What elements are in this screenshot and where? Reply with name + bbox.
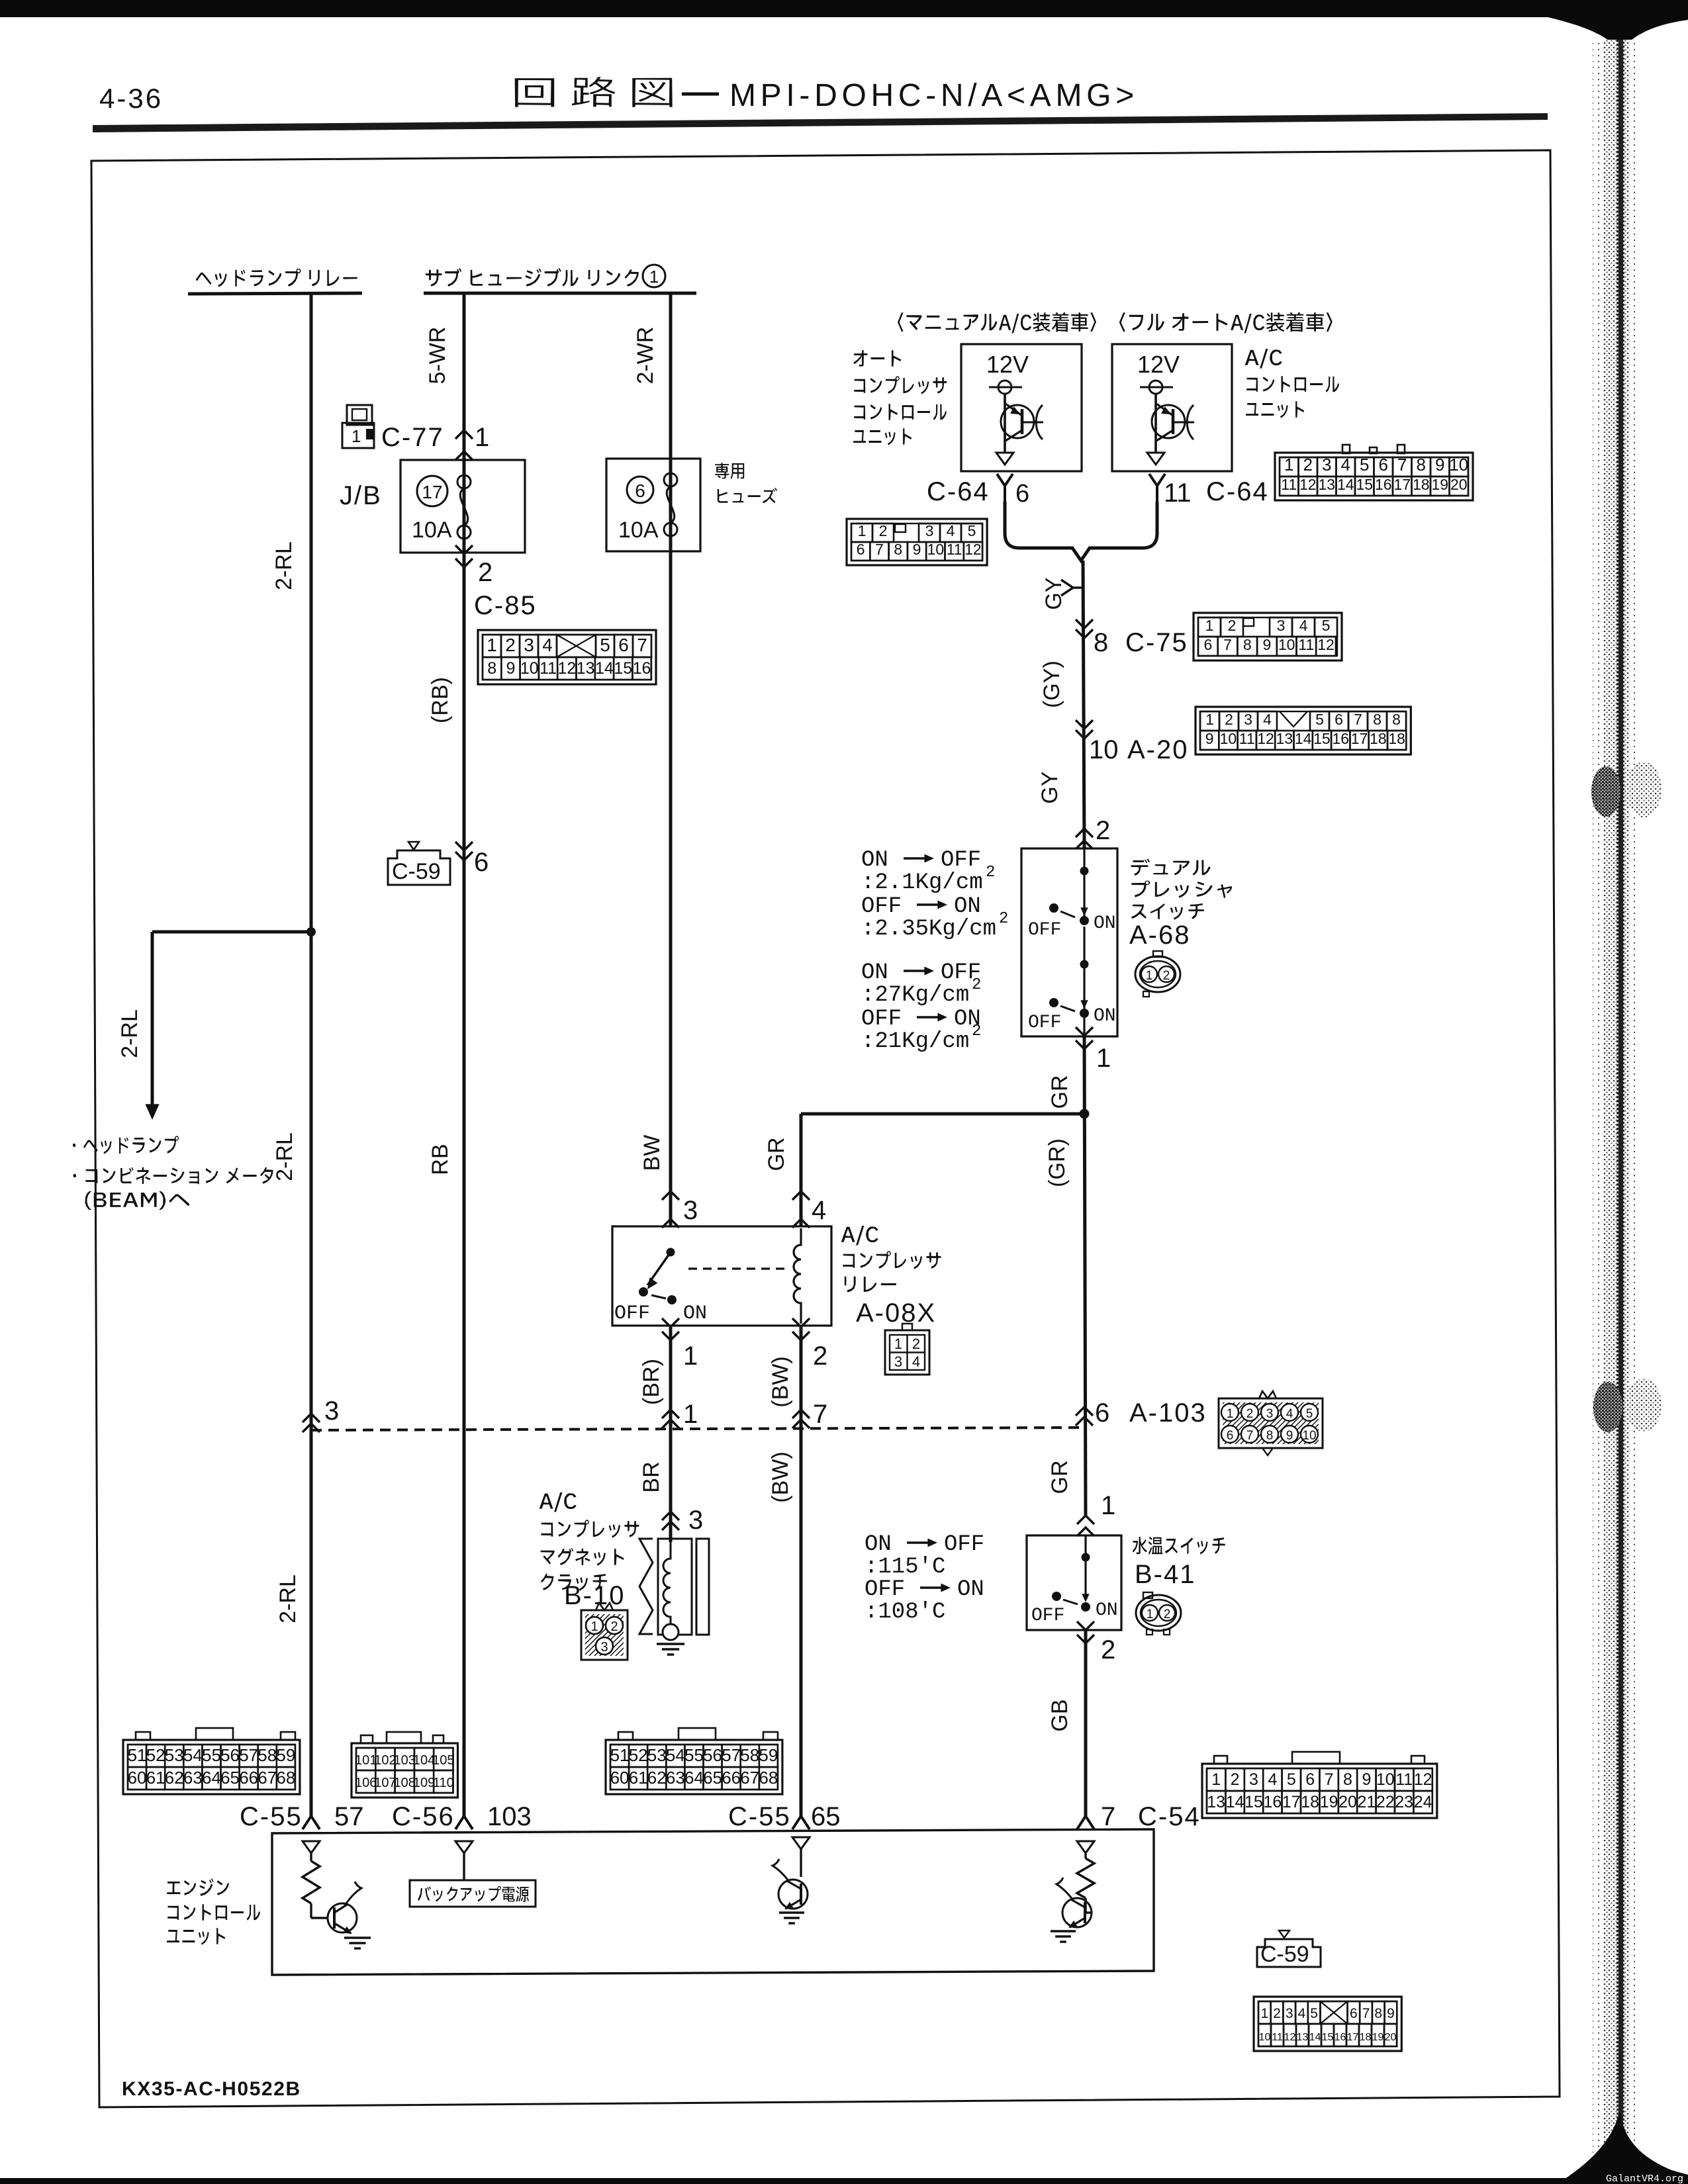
svg-text:3: 3 bbox=[925, 522, 934, 539]
svg-text:6: 6 bbox=[1379, 455, 1388, 475]
svg-text:68: 68 bbox=[276, 1768, 295, 1788]
svg-text:17: 17 bbox=[422, 482, 442, 502]
svg-text:GR: GR bbox=[764, 1138, 789, 1171]
svg-text:6: 6 bbox=[1095, 1398, 1109, 1428]
svg-text:4: 4 bbox=[1298, 2006, 1306, 2021]
wire GR below A-68 bbox=[1084, 1036, 1086, 1516]
connector icon A-103 bbox=[1219, 1398, 1323, 1448]
relay A-08X box bbox=[612, 1226, 831, 1326]
svg-text:12: 12 bbox=[557, 659, 576, 678]
svg-text:17: 17 bbox=[1393, 476, 1411, 493]
svg-text:10: 10 bbox=[1259, 2032, 1271, 2043]
relay switch ON contact bbox=[667, 1295, 677, 1304]
svg-text:1: 1 bbox=[683, 1342, 698, 1371]
svg-text:2: 2 bbox=[813, 1342, 827, 1371]
A-68 node dot mid bbox=[1080, 960, 1089, 969]
label 専用ヒューズ bbox=[715, 463, 744, 478]
junction dot 2-RL branch bbox=[306, 927, 316, 936]
fork at C-64 pin 11 bbox=[1149, 474, 1165, 504]
B-41 exit bbox=[1077, 1621, 1094, 1630]
svg-text:ON: ON bbox=[954, 894, 981, 919]
svg-text:OFF: OFF bbox=[865, 1577, 905, 1602]
fuse symbol dedicated fuse bbox=[664, 473, 677, 486]
page title 回路図 kanji bbox=[515, 77, 673, 107]
ECU internal: transistor at pin 65 bbox=[792, 1837, 810, 1849]
svg-text:110: 110 bbox=[433, 1776, 454, 1790]
svg-text:9: 9 bbox=[1286, 1429, 1293, 1443]
svg-text:12: 12 bbox=[1299, 476, 1317, 493]
relay chevron below top edge pin3 bbox=[662, 1219, 679, 1228]
svg-text:19: 19 bbox=[1431, 476, 1448, 493]
svg-text:3: 3 bbox=[1277, 617, 1286, 634]
svg-text:3: 3 bbox=[683, 1196, 698, 1225]
svg-text:(GY): (GY) bbox=[1039, 660, 1064, 708]
thick title rule bbox=[93, 113, 1548, 132]
svg-text:10: 10 bbox=[520, 659, 539, 678]
svg-text:16: 16 bbox=[633, 659, 651, 678]
relay pin 1 below bbox=[662, 1318, 679, 1327]
label 水温スイッチ bbox=[1133, 1537, 1225, 1555]
connector C-56 grid bbox=[352, 1743, 458, 1797]
svg-text:4: 4 bbox=[947, 522, 955, 539]
pin 4 above relay bbox=[792, 1191, 810, 1200]
svg-text:11: 11 bbox=[1395, 1770, 1413, 1789]
svg-text:13: 13 bbox=[1207, 1793, 1225, 1811]
pin 8 chevrons / label C-75 bbox=[1076, 619, 1093, 628]
svg-text:ON: ON bbox=[1094, 913, 1116, 934]
ECU internal: resistor at pin 57 bbox=[303, 1861, 320, 1903]
svg-text:1: 1 bbox=[1284, 455, 1293, 475]
svg-text:3: 3 bbox=[1249, 1770, 1258, 1789]
wire 2-RL branch vertical with arrow bbox=[151, 932, 154, 1104]
svg-text:1: 1 bbox=[590, 1619, 598, 1634]
svg-text:24: 24 bbox=[1414, 1793, 1432, 1811]
svg-text:10: 10 bbox=[927, 541, 945, 558]
svg-text:57: 57 bbox=[334, 1802, 364, 1831]
svg-text:2: 2 bbox=[1101, 1635, 1115, 1664]
svg-text:5-WR: 5-WR bbox=[425, 327, 450, 385]
svg-text:65: 65 bbox=[811, 1802, 841, 1831]
svg-text:4: 4 bbox=[542, 635, 553, 655]
svg-text:C-64: C-64 bbox=[1206, 477, 1269, 506]
svg-text:67: 67 bbox=[740, 1768, 759, 1788]
A-68 node dot upper bbox=[1080, 867, 1089, 876]
wire 2-WR vertical (fusible link to dedicated fuse) bbox=[669, 293, 673, 1226]
wire (BR) relay pin1 down bbox=[669, 1326, 673, 1542]
svg-text:62: 62 bbox=[165, 1768, 184, 1788]
svg-text:3: 3 bbox=[894, 1353, 902, 1370]
label headlamp relay (ヘッドランプ リレー) bbox=[196, 269, 357, 287]
svg-text:8: 8 bbox=[487, 659, 496, 678]
svg-text:OFF: OFF bbox=[861, 1007, 902, 1032]
relay internal dashed link bbox=[688, 1267, 786, 1269]
svg-text:56: 56 bbox=[703, 1745, 722, 1765]
svg-text:52: 52 bbox=[629, 1745, 648, 1765]
wire 5-WR / RB vertical (sub fusible link to ECU pin 103) bbox=[463, 293, 466, 1817]
svg-text:(BW): (BW) bbox=[768, 1451, 793, 1502]
svg-text:61: 61 bbox=[629, 1768, 648, 1788]
svg-text:8: 8 bbox=[1373, 711, 1382, 728]
svg-text:62: 62 bbox=[647, 1768, 667, 1788]
svg-text:14: 14 bbox=[1309, 2032, 1321, 2043]
magnet clutch terminal circle bbox=[663, 1624, 679, 1640]
svg-text:3: 3 bbox=[324, 1396, 339, 1426]
junction block J/B box bbox=[400, 460, 525, 553]
svg-text:11: 11 bbox=[1298, 636, 1314, 653]
junction dot GR branch bbox=[1080, 1109, 1090, 1119]
svg-text:6: 6 bbox=[635, 480, 645, 501]
svg-text:11: 11 bbox=[539, 659, 557, 678]
connector C-64 12pin grid (manual) bbox=[847, 519, 987, 565]
svg-text:2: 2 bbox=[972, 976, 981, 994]
svg-text:OFF: OFF bbox=[941, 848, 981, 873]
svg-text:9: 9 bbox=[1435, 455, 1444, 475]
svg-text:C-54: C-54 bbox=[1138, 1802, 1201, 1831]
svg-text:6: 6 bbox=[1203, 636, 1212, 653]
small fork tap on GY wire bbox=[1061, 580, 1083, 596]
svg-text:53: 53 bbox=[647, 1745, 667, 1765]
ECU internal: ground at pin 7 transistor bbox=[1051, 1930, 1076, 1933]
svg-text:59: 59 bbox=[276, 1745, 295, 1765]
labels dual pressure switch bbox=[1131, 859, 1211, 876]
svg-text:C-75: C-75 bbox=[1125, 628, 1188, 657]
svg-text:C-64: C-64 bbox=[927, 477, 990, 506]
svg-text:4-36: 4-36 bbox=[99, 83, 163, 114]
header 〈フル オートA/C装着車〉 bbox=[1119, 312, 1333, 334]
wire 2-RL vertical (headlamp relay to ECU pin 57) bbox=[310, 293, 313, 1817]
wires from C-64 pins joining (brace) bbox=[1005, 502, 1157, 561]
svg-text:1: 1 bbox=[683, 1400, 698, 1429]
svg-text:C-56: C-56 bbox=[392, 1802, 455, 1831]
svg-text:66: 66 bbox=[722, 1768, 741, 1788]
header 〈マニュアルA/C装着車〉 bbox=[898, 312, 1096, 334]
svg-text:1: 1 bbox=[1096, 1044, 1111, 1073]
connector C-77 icon bbox=[347, 405, 372, 425]
svg-text:GR: GR bbox=[1047, 1075, 1072, 1109]
svg-text:3: 3 bbox=[1266, 1407, 1274, 1421]
svg-text:J/B: J/B bbox=[340, 481, 382, 510]
svg-text:2: 2 bbox=[986, 864, 995, 882]
ECU internal: transistor at pin 57 bbox=[310, 1903, 312, 1918]
svg-text:7: 7 bbox=[1325, 1770, 1334, 1789]
svg-text:9: 9 bbox=[1362, 1770, 1371, 1789]
svg-text:11: 11 bbox=[1239, 730, 1255, 747]
svg-text:4: 4 bbox=[1286, 1407, 1293, 1421]
svg-text:51: 51 bbox=[610, 1745, 630, 1765]
svg-text:14: 14 bbox=[1295, 730, 1312, 747]
punch hole pair upper bbox=[1591, 766, 1620, 817]
svg-text:2: 2 bbox=[1228, 617, 1237, 634]
relay switch OFF contact bbox=[639, 1287, 648, 1297]
connector C-55 grid (right) bbox=[606, 1740, 782, 1794]
scan bottom-right corner blob bbox=[1557, 2110, 1688, 2184]
scan top black bar bbox=[0, 0, 1688, 17]
pin 7 above dashed line bbox=[792, 1410, 810, 1418]
svg-text:KX35-AC-H0522B: KX35-AC-H0522B bbox=[122, 2078, 301, 2100]
svg-text:52: 52 bbox=[146, 1745, 165, 1765]
svg-text:GalantVR4.org: GalantVR4.org bbox=[1606, 2173, 1683, 2184]
svg-text:2-RL: 2-RL bbox=[275, 1574, 301, 1623]
svg-text:13: 13 bbox=[1276, 730, 1293, 747]
svg-text:60: 60 bbox=[128, 1768, 147, 1788]
relay coil bbox=[794, 1228, 801, 1324]
svg-text:12: 12 bbox=[1257, 730, 1274, 747]
svg-text:ON: ON bbox=[1096, 1600, 1118, 1621]
connector icon B-10 bbox=[581, 1610, 628, 1660]
svg-text:15: 15 bbox=[1313, 730, 1331, 747]
wire (BW) relay pin2 down to ECU pin 65 bbox=[800, 1326, 803, 1817]
svg-text:5: 5 bbox=[1360, 455, 1369, 475]
labels A/C control unit bbox=[1245, 349, 1282, 369]
svg-text:103: 103 bbox=[487, 1802, 532, 1831]
pin 1 above dashed line bbox=[662, 1410, 679, 1418]
headlamp relay bus line bbox=[188, 293, 362, 294]
svg-text:7: 7 bbox=[1101, 1802, 1115, 1831]
connector A-20 grid bbox=[1196, 707, 1411, 754]
B-41 internal wire bbox=[1084, 1535, 1086, 1600]
svg-text:18: 18 bbox=[1360, 2032, 1372, 2043]
svg-text:3: 3 bbox=[1322, 455, 1331, 475]
pin 3 into A/C compressor relay bbox=[662, 1191, 679, 1200]
svg-text:C-85: C-85 bbox=[474, 591, 537, 620]
svg-text:5: 5 bbox=[1287, 1770, 1296, 1789]
backup power supply label box (バックアップ電源) bbox=[410, 1880, 536, 1907]
svg-text:19: 19 bbox=[1320, 1793, 1338, 1811]
svg-text:61: 61 bbox=[146, 1768, 165, 1788]
labels auto compressor control unit bbox=[853, 350, 901, 367]
svg-text:7: 7 bbox=[813, 1400, 827, 1429]
svg-text:GB: GB bbox=[1047, 1699, 1072, 1731]
A-68 wire internal bbox=[1083, 848, 1085, 917]
svg-text::2.1Kg/cm: :2.1Kg/cm bbox=[861, 870, 983, 895]
svg-text:10: 10 bbox=[1302, 1429, 1316, 1443]
svg-text:54: 54 bbox=[666, 1745, 685, 1765]
svg-text:13: 13 bbox=[1318, 476, 1335, 493]
svg-text:56: 56 bbox=[220, 1745, 240, 1765]
svg-text:8: 8 bbox=[1343, 1770, 1352, 1789]
svg-text::27Kg/cm: :27Kg/cm bbox=[861, 983, 969, 1008]
sub fusible link bus line bbox=[424, 292, 696, 295]
svg-text:GR: GR bbox=[1047, 1461, 1072, 1494]
A-68 switch 1 OFF contact bbox=[1049, 903, 1058, 913]
svg-text:1: 1 bbox=[352, 426, 361, 446]
svg-text:ON: ON bbox=[861, 848, 888, 873]
svg-text:12: 12 bbox=[964, 541, 982, 558]
svg-text:10A: 10A bbox=[412, 518, 452, 543]
svg-text:18: 18 bbox=[1413, 476, 1430, 493]
svg-text:9: 9 bbox=[1263, 636, 1272, 653]
svg-text:9: 9 bbox=[1387, 2006, 1395, 2021]
svg-text:1: 1 bbox=[1146, 969, 1153, 983]
svg-text:20: 20 bbox=[1450, 476, 1468, 493]
A-68 switch 1 ON contact bbox=[1080, 916, 1089, 925]
svg-text:8: 8 bbox=[1243, 636, 1252, 653]
svg-text:67: 67 bbox=[258, 1768, 277, 1788]
main GY wire down from brace bbox=[1083, 561, 1084, 848]
svg-text:2: 2 bbox=[610, 1619, 618, 1634]
svg-text:12: 12 bbox=[1414, 1770, 1432, 1789]
svg-text:3: 3 bbox=[1286, 2006, 1293, 2021]
svg-text:5: 5 bbox=[1315, 711, 1324, 728]
svg-text:1: 1 bbox=[1147, 1608, 1154, 1621]
svg-text:MPI-DOHC-N/A<AMG>: MPI-DOHC-N/A<AMG> bbox=[729, 78, 1139, 113]
svg-text:OFF: OFF bbox=[1028, 920, 1061, 940]
svg-text:2-RL: 2-RL bbox=[271, 541, 297, 590]
svg-text:18: 18 bbox=[1301, 1793, 1319, 1811]
svg-text:22: 22 bbox=[1376, 1793, 1395, 1811]
water temp switch B-41 box bbox=[1027, 1535, 1121, 1630]
svg-text:2-WR: 2-WR bbox=[633, 327, 658, 385]
svg-text:3: 3 bbox=[524, 635, 534, 655]
svg-text:12V: 12V bbox=[1137, 351, 1180, 378]
svg-text:2: 2 bbox=[1246, 1407, 1254, 1421]
svg-text:16: 16 bbox=[1263, 1793, 1282, 1811]
svg-text:1: 1 bbox=[1101, 1491, 1115, 1520]
svg-text:(BW): (BW) bbox=[768, 1356, 793, 1407]
svg-text:OFF: OFF bbox=[944, 1532, 984, 1557]
svg-text:11: 11 bbox=[947, 541, 962, 558]
svg-text:7: 7 bbox=[1362, 2006, 1370, 2021]
svg-text:10: 10 bbox=[1278, 636, 1295, 653]
svg-text:GY: GY bbox=[1041, 577, 1066, 610]
svg-text:15: 15 bbox=[1244, 1793, 1263, 1811]
svg-text:15: 15 bbox=[614, 659, 632, 678]
svg-text:9: 9 bbox=[1205, 730, 1214, 747]
svg-text:2: 2 bbox=[1163, 969, 1170, 983]
svg-text:17: 17 bbox=[1282, 1793, 1301, 1811]
svg-text:11: 11 bbox=[1272, 2032, 1283, 2043]
svg-text:11: 11 bbox=[1164, 478, 1192, 508]
svg-text:2: 2 bbox=[1225, 711, 1233, 728]
svg-text:9: 9 bbox=[506, 659, 515, 678]
svg-text:2-RL: 2-RL bbox=[117, 1009, 142, 1058]
svg-text:2: 2 bbox=[1096, 816, 1110, 845]
magnet clutch right bar bbox=[696, 1539, 709, 1635]
dedicated fuse box (専用ヒューズ) bbox=[606, 459, 700, 551]
svg-text:B-10: B-10 bbox=[564, 1581, 626, 1610]
crossing chevron on 2-RL at dashed ECU line, pin 3 bbox=[303, 1414, 320, 1422]
svg-text:19: 19 bbox=[1372, 2032, 1384, 2043]
magnet clutch symbol left bracket bbox=[639, 1539, 653, 1634]
dashed internal ECU boundary line bbox=[311, 1428, 1084, 1430]
svg-text:ON: ON bbox=[865, 1532, 892, 1557]
svg-text:57: 57 bbox=[239, 1745, 258, 1765]
svg-text:8: 8 bbox=[1392, 711, 1401, 728]
svg-text:54: 54 bbox=[183, 1745, 203, 1765]
svg-text:1: 1 bbox=[487, 635, 497, 655]
svg-text:B-41: B-41 bbox=[1135, 1560, 1196, 1589]
B-41 node dot bbox=[1082, 1553, 1090, 1562]
svg-text:12: 12 bbox=[1284, 2032, 1296, 2043]
svg-text:7: 7 bbox=[1397, 455, 1407, 475]
svg-text:60: 60 bbox=[610, 1768, 630, 1788]
svg-text:5: 5 bbox=[1306, 1407, 1313, 1421]
scan top-right corner funnel bbox=[1542, 0, 1688, 52]
svg-text:3: 3 bbox=[688, 1506, 703, 1535]
svg-text:64: 64 bbox=[202, 1768, 221, 1788]
svg-text:13: 13 bbox=[577, 659, 595, 678]
pin 3 chevrons on BR wire at clutch bbox=[662, 1512, 679, 1520]
svg-text:66: 66 bbox=[239, 1768, 258, 1788]
book spine gradient strip bbox=[1593, 40, 1603, 2184]
wire 2-RL branch horizontal bbox=[152, 931, 311, 934]
ground below magnet clutch bbox=[657, 1643, 684, 1645]
svg-text:2-RL: 2-RL bbox=[272, 1132, 297, 1181]
svg-text:6: 6 bbox=[1227, 1429, 1234, 1443]
svg-text::2.35Kg/cm: :2.35Kg/cm bbox=[861, 917, 996, 942]
svg-text:23: 23 bbox=[1395, 1793, 1413, 1811]
svg-text:10: 10 bbox=[1449, 455, 1468, 475]
boxes full auto A/C control unit bbox=[1112, 344, 1232, 471]
relay switch lever bbox=[647, 1252, 671, 1285]
svg-text:55: 55 bbox=[684, 1745, 704, 1765]
svg-text:13: 13 bbox=[1297, 2032, 1309, 2043]
svg-text:4: 4 bbox=[812, 1196, 826, 1225]
fuse symbol in J/B bbox=[457, 475, 471, 488]
svg-text:2: 2 bbox=[1303, 455, 1313, 475]
fuse 17 circled number bbox=[417, 476, 447, 506]
svg-text:ON: ON bbox=[1094, 1006, 1116, 1026]
circled 1 of sub fusible link bbox=[643, 265, 665, 287]
connector C-59 grid bbox=[1254, 1997, 1401, 2051]
svg-text::108'C: :108'C bbox=[865, 1600, 945, 1625]
svg-text:3: 3 bbox=[1244, 711, 1252, 728]
svg-text:ON: ON bbox=[683, 1302, 707, 1325]
punch hole pair lower bbox=[1593, 1382, 1622, 1432]
svg-text:OFF: OFF bbox=[1028, 1013, 1061, 1033]
connector C-75 grid bbox=[1194, 613, 1342, 660]
wire GB below B-41 to ECU pin 7 bbox=[1084, 1630, 1088, 1817]
svg-text:A-20: A-20 bbox=[1127, 735, 1189, 764]
svg-text:1: 1 bbox=[1205, 617, 1214, 634]
relay pin 2 below bbox=[792, 1318, 810, 1327]
svg-text:1: 1 bbox=[649, 267, 659, 287]
svg-text:105: 105 bbox=[432, 1753, 454, 1768]
svg-text:17: 17 bbox=[1347, 2032, 1359, 2043]
connector C-59 icon (bottom right) bbox=[1257, 1939, 1321, 1967]
connector C-85 pin grid bbox=[478, 630, 656, 684]
ECU box (エンジン コントロール ユニット) bbox=[272, 1829, 1154, 1975]
ECU pin forks bbox=[303, 1816, 320, 1829]
svg-text:16: 16 bbox=[1335, 2032, 1346, 2043]
pin 6 chevron at dashed line bbox=[1076, 1407, 1093, 1416]
svg-text:5: 5 bbox=[600, 635, 610, 655]
svg-text:58: 58 bbox=[258, 1745, 277, 1765]
ECU internal: transistor at pin 7 bbox=[1084, 1898, 1086, 1913]
connector C-64 pin grid bbox=[1275, 453, 1473, 500]
labels engine control unit bbox=[167, 1878, 229, 1895]
svg-text:68: 68 bbox=[759, 1768, 778, 1788]
pin 10 chevrons / label A-20 bbox=[1076, 720, 1093, 729]
svg-text:C-77: C-77 bbox=[381, 423, 444, 452]
svg-text:63: 63 bbox=[666, 1768, 685, 1788]
connector C-55 grid (left) bbox=[123, 1740, 300, 1794]
svg-text:10: 10 bbox=[1089, 735, 1119, 764]
ECU internal: ground at pin 65 transistor bbox=[779, 1911, 804, 1914]
svg-text:OFF: OFF bbox=[1031, 1606, 1064, 1626]
pin 2 below J/B bbox=[455, 545, 473, 554]
ECU internal: pin57 triangle bbox=[303, 1841, 320, 1853]
svg-text:10: 10 bbox=[1220, 730, 1237, 747]
A-68 exit chevron bbox=[1076, 1027, 1093, 1036]
svg-text:10A: 10A bbox=[618, 518, 659, 543]
svg-text:5: 5 bbox=[1322, 617, 1331, 634]
svg-text:8: 8 bbox=[1417, 455, 1426, 475]
connector icon B-41 oval bbox=[1136, 1595, 1181, 1631]
B-41 switch ON contact bbox=[1081, 1602, 1090, 1612]
svg-text:7: 7 bbox=[1246, 1429, 1254, 1443]
svg-text:C-59: C-59 bbox=[1260, 1942, 1309, 1967]
